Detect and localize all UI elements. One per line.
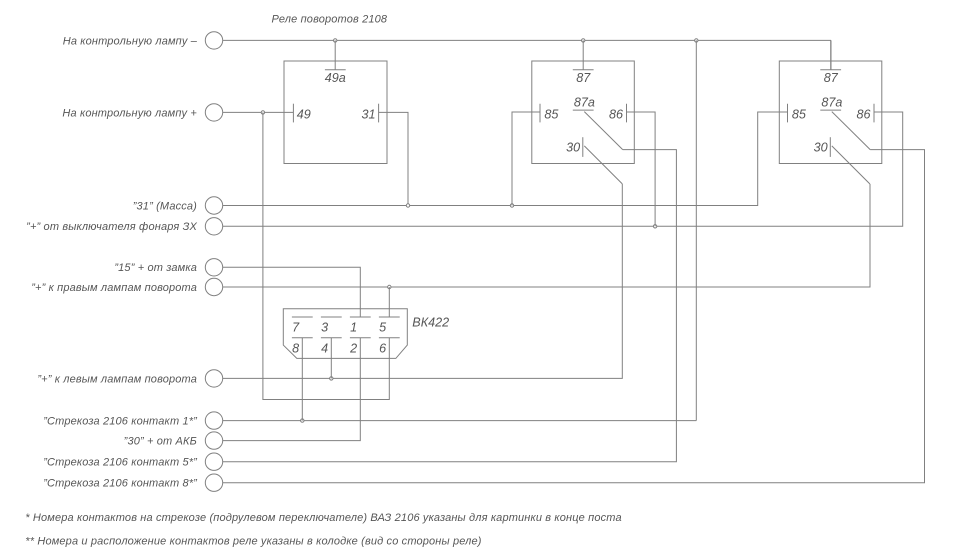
svg-text:1: 1 [350,320,357,334]
relay K3 body [779,61,882,164]
relay K1 pin 49a (stub + contact bar + label) [325,40,346,84]
relay K2 pin 86 (contact bar + label) [609,104,627,123]
wire: контакт 5 to relay K2 pin 87a arm tail [223,150,677,462]
junction: top bus / relay K2 pin 87 stub [582,39,585,42]
junction: top bus / relay K1 pin 49a stub [334,39,337,42]
svg-text:* Номера контактов на стрекозе: * Номера контактов на стрекозе (подрулев… [25,512,621,524]
svg-text:”31” (Масса): ”31” (Масса) [133,200,197,212]
connector XP1 pin 8 (contact bar + number) [292,338,313,356]
wire: net правые лампы bus to relay K3 pin 30 arm [223,184,870,287]
wire: connector pin 8 drop [301,338,303,421]
node «15» + от замка terminal [114,259,222,276]
relay K2 body [532,61,635,164]
relay K3 pin 85 (contact bar + label) [788,104,807,123]
node «На контрольную лампу +» terminal [62,104,222,121]
svg-text:”+” от выключателя фонаря ЗХ: ”+” от выключателя фонаря ЗХ [26,221,197,233]
wire: замок 15 to connector pin 1 [223,267,360,317]
wire: лампа «+» branch to connector pin 6 [263,112,389,399]
relay K3 pin 30 (contact bar + label) [814,137,831,157]
svg-text:31: 31 [361,107,375,121]
svg-text:86: 86 [856,107,870,121]
relay K1 pin 49 (contact bar + label) [293,104,310,123]
wire: connector pin 5 riser [388,287,390,317]
junction: правые лампы / connector pin 5 [388,285,391,288]
wire: контакт 8 to relay K3 pin 87a arm tail [223,150,925,483]
wire: relay K2 pin 86 to фонарь ЗХ bus [627,112,656,226]
node «Стрекоза 2106 контакт 8» terminal [43,474,222,491]
connector XP1 pin 6 (contact bar + number) [379,338,400,356]
svg-text:7: 7 [292,320,300,334]
svg-text:** Номера и расположение конта: ** Номера и расположение контактов реле … [25,536,481,548]
svg-text:87: 87 [576,71,591,85]
junction: левые лампы / connector pin 4 [330,377,333,380]
relay K2 switch arm 30 (diagonal) [584,146,622,184]
wire: net «контрольная лампа -» top bus [223,40,831,69]
wire: net левые лампы bus to relay K2 pin 30 arm [223,184,623,379]
relay K1 «Реле поворотов 2108» body [284,61,387,164]
svg-text:85: 85 [792,107,807,121]
node «+» от выключателя фонаря ЗХ terminal [26,218,223,235]
relay K3 pin 86 (contact bar + label) [856,104,874,123]
junction: контакт 1 / connector pin 8 [301,419,304,422]
node «На контрольную лампу -» terminal [63,32,223,49]
svg-text:2: 2 [349,341,357,355]
wire: АКБ to connector pin 2 [223,338,360,441]
svg-text:4: 4 [321,341,328,355]
svg-text:”Стрекоза 2106 контакт 8*”: ”Стрекоза 2106 контакт 8*” [43,478,198,490]
svg-text:”Стрекоза 2106 контакт 1*”: ”Стрекоза 2106 контакт 1*” [43,416,198,428]
svg-text:ВК422: ВК422 [412,316,449,330]
connector XP1 pin 1 (contact bar + number) [350,317,371,334]
connector XP1 pin 7 (contact bar + number) [292,317,313,334]
connector XP1 pin 3 (contact bar + number) [321,317,342,334]
svg-text:49а: 49а [325,71,346,85]
relay K3 pin 87a (label + contact bar) [820,96,842,111]
svg-text:”+” к правым лампам поворота: ”+” к правым лампам поворота [31,282,197,294]
svg-text:87а: 87а [821,96,842,110]
svg-text:Реле поворотов 2108: Реле поворотов 2108 [272,14,388,26]
relay K2 pin 87 (stub + contact bar + label) [573,40,594,84]
connector XP1 pin 4 (contact bar + number) [321,338,342,356]
relay K3 pin 87 (stub + contact bar + label) [820,40,841,84]
wire: connector pin 4 drop [330,338,332,379]
junction: top bus / drop to net «Стрекоза контакт 1» [695,39,698,42]
relay K2 pin 85 (contact bar + label) [540,104,559,123]
svg-text:”15” + от замка: ”15” + от замка [114,262,197,274]
relay K2 switch arm 87a (diagonal) [584,112,622,150]
footnote ** про номера контактов реле [25,536,481,548]
wire: лампа «+» to relay K1 pin 49 [223,111,294,113]
svg-text:На контрольную лампу +: На контрольную лампу + [62,107,197,119]
svg-text:3: 3 [321,320,328,334]
wire: net Масса bus to relay K3 pin 85 [223,112,788,206]
junction: Масса / relay K1 pin 31 [406,204,409,207]
connector XP1 pin 2 (contact bar + number) [349,338,371,356]
junction: фонарь ЗХ / relay K2 pin 86 [653,225,656,228]
node «Стрекоза 2106 контакт 5» terminal [43,453,222,470]
wire: relay K1 pin 31 to Масса bus [379,112,408,205]
svg-text:87а: 87а [574,96,595,110]
relay K1 pin 31 (contact bar + label) [361,104,378,123]
svg-text:”+” к левым лампам поворота: ”+” к левым лампам поворота [37,373,197,385]
wire: net фонарь ЗХ bus to relay K3 pin 86 [223,112,903,226]
footnote * про номера контактов стрекозы [25,512,621,524]
junction: Масса / relay K2 pin 85 [510,204,513,207]
title: Реле поворотов 2108 [272,14,388,26]
node «+» к правым лампам поворота terminal [31,278,222,295]
node «Стрекоза 2106 контакт 1» terminal [43,412,222,429]
svg-text:8: 8 [292,341,299,355]
connector XP1 label ВК422 [412,316,449,330]
svg-text:49: 49 [297,107,311,121]
connector XP1 pin 5 (contact bar + number) [379,317,400,334]
junction: лампа «+» wire / branch to connector pin 6 [261,111,264,114]
svg-text:85: 85 [544,107,559,121]
relay K2 pin 87a (label + contact bar) [573,96,595,111]
svg-text:86: 86 [609,107,623,121]
relay K2 pin 30 (contact bar + label) [566,137,583,157]
wire: drop from top bus to «Стрекоза контакт 1» line [695,40,697,420]
node «31» (Масса) terminal [133,197,223,214]
node «30» + от АКБ terminal [124,432,223,449]
svg-text:30: 30 [566,141,580,155]
svg-text:На контрольную лампу –: На контрольную лампу – [63,35,198,47]
relay K3 switch arm 87a (diagonal) [832,112,870,150]
svg-text:5: 5 [379,320,387,334]
svg-text:”Стрекоза 2106 контакт 5*”: ”Стрекоза 2106 контакт 5*” [43,457,198,469]
node «+» к левым лампам поворота terminal [37,370,222,387]
connector XP1 ВК422 outline [283,309,407,359]
svg-text:30: 30 [814,141,828,155]
svg-text:”30” + от АКБ: ”30” + от АКБ [124,436,197,448]
wire: net Стрекоза контакт 1 line [223,420,697,422]
svg-text:6: 6 [379,341,386,355]
svg-text:87: 87 [824,71,839,85]
wire: relay K2 pin 85 to Масса bus [512,112,540,206]
relay K3 switch arm 30 (diagonal) [832,146,870,184]
